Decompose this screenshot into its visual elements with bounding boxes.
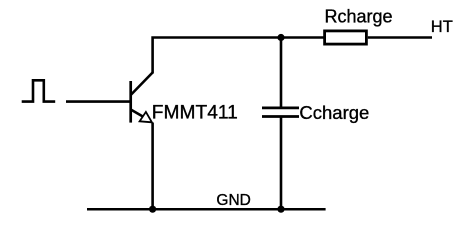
wire: top node to Ccharge	[280, 36, 283, 108]
wire: Rcharge to HT	[368, 36, 432, 39]
svg-text:Rcharge: Rcharge	[325, 6, 393, 26]
junction: capacitor to ground	[277, 206, 284, 213]
capacitor Ccharge	[262, 108, 299, 117]
wire: input to base of Q1	[66, 100, 131, 103]
pulse input symbol	[22, 80, 56, 101]
junction: top node (collector / Rcharge / Ccharge)	[277, 34, 284, 41]
junction: emitter to ground	[149, 206, 156, 213]
svg-text:Ccharge: Ccharge	[299, 102, 369, 123]
svg-text:HT: HT	[431, 18, 453, 36]
wire: Ccharge to ground rail	[280, 117, 283, 210]
transistor Q1 FMMT411	[131, 73, 153, 123]
svg-text:GND: GND	[216, 192, 250, 209]
wire: emitter of Q1 to ground rail	[151, 123, 154, 211]
ground rail GND	[87, 208, 326, 211]
resistor Rcharge	[325, 31, 367, 44]
svg-text:FMMT411: FMMT411	[152, 103, 238, 124]
wire: collector of Q1 to top rail	[153, 38, 324, 74]
